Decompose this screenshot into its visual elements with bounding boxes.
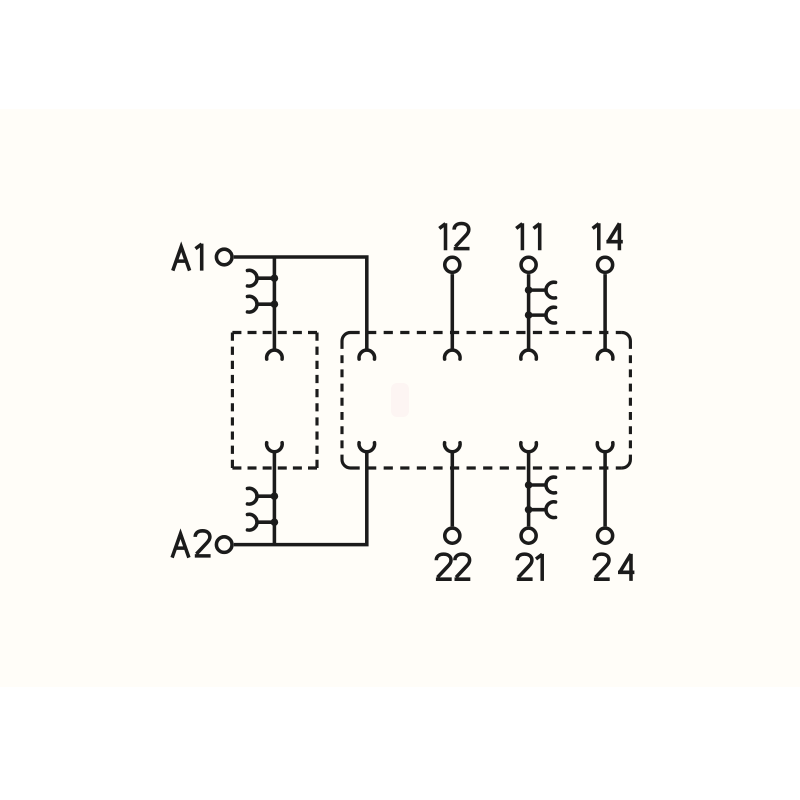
terminal A2 label	[172, 534, 189, 558]
wire from terminal 11 down	[527, 274, 531, 350]
socket pin bottom, contact 21	[521, 443, 537, 452]
module 2 dashed outline left edge	[340, 341, 343, 460]
socket pin top, contact 11	[521, 350, 537, 359]
wire to terminal 22	[451, 452, 455, 527]
wire A1 branch down into module 1	[273, 257, 277, 350]
module 2 rounded corner bottom-right	[622, 460, 631, 469]
terminal 22 circle	[445, 528, 460, 543]
wire to terminal 21	[527, 452, 531, 527]
wire to terminal 24	[603, 452, 607, 527]
wire from terminal 14 down	[603, 274, 607, 350]
terminal 12 label	[439, 223, 445, 250]
module 2 dashed outline bottom edge	[351, 466, 622, 469]
wire A1 horizontal with corner down to coil socket pin	[234, 257, 367, 350]
watermark	[391, 383, 409, 417]
terminal 14 label	[593, 223, 599, 250]
terminal A1 circle	[216, 249, 232, 265]
socket pin bottom, contact 24	[597, 443, 613, 452]
terminal A1 label	[173, 247, 190, 271]
terminal 24 circle	[598, 528, 613, 543]
terminal 14 circle	[598, 257, 613, 272]
socket pin top, contact 12	[444, 350, 460, 359]
plug-in contact on A1 branch, upper	[271, 274, 279, 282]
plug-in contact on wire 21, upper	[525, 481, 533, 489]
socket pin bottom inside module 1	[267, 443, 283, 452]
module 1 dashed outline top edge	[232, 331, 317, 334]
module 2 rounded corner bottom-left	[342, 460, 351, 469]
module 1 dashed outline right edge	[315, 333, 318, 469]
plug-in contact on wire 11, upper	[525, 286, 533, 294]
plug-in contact on A1 branch, lower	[271, 300, 279, 308]
terminal 24 label	[594, 554, 610, 579]
terminal 11 circle	[521, 257, 536, 272]
socket pin bottom, contact 22	[444, 443, 460, 452]
terminal 12 circle	[445, 257, 460, 272]
module 2 dashed outline top edge	[351, 331, 622, 334]
plug-in contact on A2 branch, upper	[271, 492, 279, 500]
coil socket pin bottom at A2 corner	[359, 443, 375, 452]
module 2 rounded corner top-left	[342, 333, 351, 342]
page background band	[0, 109, 800, 687]
plug-in contact on wire 11, lower	[525, 311, 533, 319]
terminal 21 circle	[521, 528, 536, 543]
module 1 dashed outline bottom edge	[232, 466, 317, 469]
plug-in contact on wire 21, lower	[525, 506, 533, 514]
plug-in contact on A2 branch, lower	[271, 518, 279, 526]
wire A2 branch up into module 1	[273, 452, 277, 545]
wire from terminal 12 down	[451, 274, 455, 350]
module 2 dashed outline right edge	[629, 341, 632, 460]
module 1 dashed outline left edge	[231, 333, 234, 469]
module 2 rounded corner top-right	[622, 333, 631, 342]
wire A2 horizontal with corner up to coil socket pin	[234, 452, 367, 545]
terminal 21 label	[517, 554, 533, 579]
socket pin top, contact 14	[597, 350, 613, 359]
coil socket pin top at A1 corner	[359, 350, 375, 359]
terminal A2 circle	[216, 537, 232, 553]
socket pin top inside module 1	[267, 350, 283, 359]
terminal 22 label	[436, 554, 452, 579]
terminal 11 label	[516, 223, 522, 250]
